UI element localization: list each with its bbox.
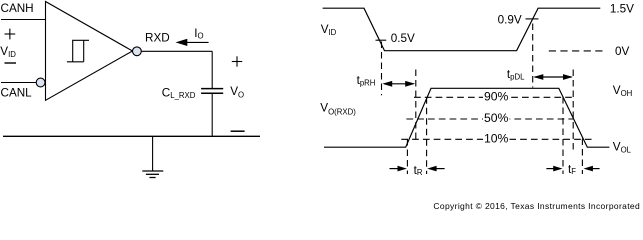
svg-text:0.5V: 0.5V: [391, 32, 415, 45]
svg-text:10%: 10%: [484, 132, 509, 146]
svg-text:50%: 50%: [484, 111, 509, 125]
svg-text:Copyright © 2016, Texas Instru: Copyright © 2016, Texas Instruments Inco…: [433, 201, 640, 211]
svg-text:90%: 90%: [484, 90, 509, 104]
svg-text:0.9V: 0.9V: [498, 14, 522, 27]
svg-text:CANL: CANL: [1, 86, 33, 99]
svg-text:RXD: RXD: [145, 31, 170, 44]
svg-text:1.5V: 1.5V: [610, 3, 634, 16]
svg-text:CANH: CANH: [1, 2, 34, 15]
svg-text:0V: 0V: [615, 45, 630, 58]
